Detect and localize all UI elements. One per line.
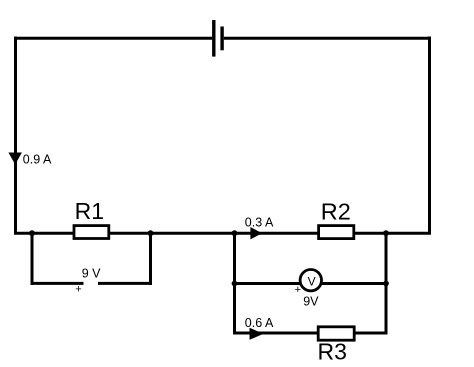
- wire right side: [428, 37, 431, 235]
- svg-text:+: +: [75, 284, 81, 296]
- svg-text:R2: R2: [321, 198, 351, 224]
- wire 9V-branch left vertical: [31, 233, 34, 285]
- wire top-right segment: [224, 37, 430, 40]
- wire sub-circuit left vertical: [233, 233, 236, 335]
- svg-text:0.6 A: 0.6 A: [245, 316, 274, 330]
- wire sub-circuit right vertical: [385, 233, 388, 335]
- svg-text:V: V: [308, 274, 316, 288]
- wire 9V-branch bottom-right segment: [98, 282, 152, 285]
- svg-text:9 V: 9 V: [82, 267, 101, 281]
- voltmeter V: [300, 270, 321, 291]
- battery V1 right plate (short): [220, 27, 223, 51]
- svg-text:R1: R1: [75, 198, 104, 224]
- svg-text:0.9 A: 0.9 A: [23, 153, 52, 167]
- wire R3 branch bottom: [233, 332, 388, 335]
- wire 9V-branch right vertical: [149, 233, 152, 285]
- node junction dot voltmeter branch right: [383, 281, 389, 287]
- svg-text:9V: 9V: [303, 295, 319, 309]
- resistor R1: [74, 226, 109, 239]
- svg-text:0.3 A: 0.3 A: [245, 215, 274, 229]
- arrow current 0.3 A (right): [250, 227, 262, 239]
- node junction dot voltmeter branch left: [232, 281, 238, 287]
- resistor R2: [319, 226, 354, 239]
- wire 9V-branch bottom-left segment: [31, 282, 84, 285]
- node junction dot middle branch top-right: [383, 230, 389, 236]
- svg-text:+: +: [295, 284, 301, 296]
- resistor R3: [318, 327, 354, 340]
- node junction dot right of R1 branch: [148, 230, 154, 236]
- wire top-left segment: [16, 37, 213, 40]
- wire voltmeter branch: [233, 282, 388, 285]
- svg-text:R3: R3: [318, 339, 347, 365]
- arrow current 0.9 A (down): [8, 153, 22, 165]
- wire main horizontal: [14, 232, 431, 235]
- battery V1 left plate (long): [212, 20, 215, 57]
- node junction dot left of R1 branch: [29, 230, 35, 236]
- node junction dot middle branch top-left: [232, 230, 238, 236]
- wire left side: [14, 37, 17, 235]
- arrow current 0.6 A (right): [250, 328, 264, 340]
